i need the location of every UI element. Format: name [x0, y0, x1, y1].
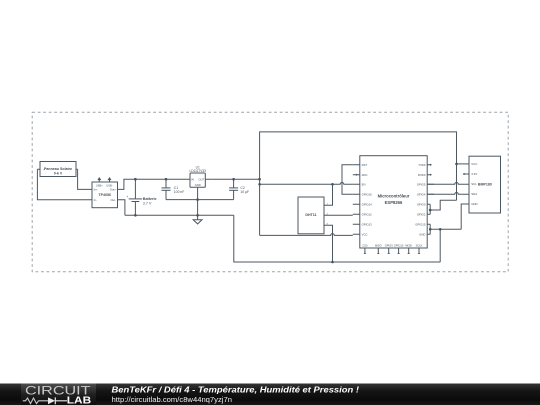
svg-text:GND: GND [419, 232, 425, 236]
svg-text:GPIO5: GPIO5 [417, 182, 426, 186]
svg-text:10 µF: 10 µF [240, 190, 249, 194]
bracket GPIO0-GPIO2 [429, 204, 431, 214]
BMP 3.3V unconnected stub [463, 173, 469, 175]
bottom pin labels [362, 244, 422, 248]
svg-text:GPIO15: GPIO15 [415, 222, 426, 226]
battery- rail [125, 214, 234, 216]
wire U1 OUT rail to 3.3V riser [212, 178, 259, 180]
svg-text:Microcontrôleur: Microcontrôleur [378, 194, 410, 199]
sensor DHT11 [298, 197, 331, 234]
svg-text:MISO: MISO [375, 244, 382, 248]
svg-text:ESP8266: ESP8266 [385, 200, 403, 205]
svg-text:GND: GND [195, 183, 201, 187]
svg-text:+: + [126, 195, 128, 199]
wire SDA GPIO4 to BMP (hop over 3.3V riser) [427, 193, 469, 195]
wire TP4056 Out- down to battery- rail [118, 200, 125, 216]
schematic frame (dashed border) [32, 112, 508, 272]
sensor BMP180 [469, 156, 501, 213]
wire DHT11 VCC up to EN row [331, 184, 333, 205]
svg-text:GPIO0: GPIO0 [417, 202, 426, 206]
svg-text:GPIO10: GPIO10 [394, 244, 404, 248]
bracket GPIO15-GND [429, 224, 431, 234]
wire SCL GPIO5 to BMP (hop over 3.3V riser) [427, 183, 469, 185]
wire 3.3V to BMP VCC [457, 163, 470, 165]
svg-text:RST: RST [362, 163, 368, 167]
svg-text:LD1117V33: LD1117V33 [190, 169, 207, 173]
right pin stubs [427, 165, 434, 235]
svg-text:SCL: SCL [471, 182, 477, 186]
svg-text:SDA: SDA [471, 192, 477, 196]
svg-text:BenTeKFr / Défi 4 - Températur: BenTeKFr / Défi 4 - Température, Humidit… [112, 386, 360, 395]
svg-text:LAB: LAB [67, 395, 91, 405]
left pin labels [362, 163, 373, 237]
svg-text:Out+: Out+ [110, 188, 117, 192]
svg-text:Out-: Out- [110, 198, 116, 202]
svg-text:TP4056: TP4056 [98, 193, 111, 197]
wire RST to GPIO16 bracket [342, 165, 353, 195]
svg-text:MOSI: MOSI [405, 244, 412, 248]
ground line C1-C2 under regulator [166, 199, 234, 201]
bottom pin end ticks [364, 253, 420, 255]
svg-text:TXD0: TXD0 [418, 163, 426, 167]
wire DHT11 data to GPIO12 [331, 214, 353, 216]
svg-text:GPIO9: GPIO9 [385, 244, 393, 248]
svg-text:Panneau Solaire: Panneau Solaire [44, 167, 72, 171]
wire solar panel minus to TP4056 In- [37, 169, 92, 200]
svg-text:VCC: VCC [471, 162, 477, 166]
pin arrows TXD0 RXD0 ADC [356, 164, 431, 176]
svg-text:ADC: ADC [362, 173, 368, 177]
svg-text:OUT: OUT [199, 177, 205, 181]
wire VCC row 3.3V to ESP VCC (hop over DHT GND) [260, 234, 353, 236]
svg-text:GPIO14: GPIO14 [362, 202, 373, 206]
wire GPIO15/GND node to BMP GND riser [430, 204, 469, 229]
svg-text:-: - [71, 168, 72, 171]
junction node dots [134, 163, 458, 264]
svg-text:http://circuitlab.com/c8w44nq7: http://circuitlab.com/c8w44nq7yzj7n [112, 395, 233, 404]
capacitor C1 100 nF [162, 179, 185, 199]
svg-text:GND: GND [471, 202, 477, 206]
CircuitLab logo resistor zigzag [23, 398, 48, 404]
wire U1 GND down [197, 187, 199, 215]
svg-text:BMP180: BMP180 [478, 182, 492, 186]
solar panel V1 Panneau Solaire 0-6 V [37, 162, 77, 177]
ground rail [234, 229, 440, 262]
regulator U1 LD1117V33 [183, 165, 212, 187]
battery BAT1 Batterie 3.7 V [126, 179, 156, 215]
3.3V riser and top rail to BMP180 VCC [260, 132, 457, 236]
svg-text:In+: In+ [94, 188, 98, 192]
svg-text:IN: IN [191, 177, 194, 181]
svg-text:VCC: VCC [362, 232, 368, 236]
svg-text:GPIO4: GPIO4 [417, 192, 426, 196]
svg-text:RXD0: RXD0 [418, 173, 426, 177]
svg-text:EN: EN [362, 182, 366, 186]
wire TP4056 Out+ up to 3.7V rail, rail to LD1117 IN [118, 179, 184, 189]
CircuitLab footer bar [0, 384, 540, 405]
svg-text:3.3V: 3.3V [471, 172, 477, 176]
wire DHT11 GND down to ground rail [331, 225, 333, 262]
svg-text:3.7 V: 3.7 V [143, 202, 152, 206]
svg-text:CS0: CS0 [362, 244, 368, 248]
svg-text:GPIO2: GPIO2 [417, 212, 426, 216]
capacitor C2 10 uF [229, 179, 249, 199]
CircuitLab logo diode [48, 397, 55, 404]
right pin labels [415, 163, 426, 237]
wire EN row 3.3V to ESP EN (hop over RST bracket) [260, 183, 353, 185]
3.3V staircase to GPIO0/GPIO2 pull-up node [430, 200, 456, 210]
left pin stubs [353, 165, 360, 235]
wire battery- rail down to ground rail [234, 215, 440, 262]
svg-text:In-: In- [94, 198, 97, 202]
svg-text:GPIO12: GPIO12 [362, 212, 373, 216]
charger TP4056 [92, 178, 118, 208]
svg-text:GPIO16: GPIO16 [362, 192, 373, 196]
svg-text:SCLK: SCLK [416, 244, 423, 248]
bottom pin stubs [365, 248, 419, 254]
wire solar panel plus to TP4056 In+ [78, 169, 92, 189]
svg-text:GPIO13: GPIO13 [362, 222, 373, 226]
microcontroller U2 ESP8266 [353, 156, 434, 254]
svg-text:Batterie: Batterie [143, 197, 157, 201]
svg-text:DHT11: DHT11 [305, 213, 316, 217]
svg-text:100 nF: 100 nF [174, 190, 185, 194]
svg-text:0-6 V: 0-6 V [54, 172, 63, 176]
ground symbol [193, 215, 202, 224]
